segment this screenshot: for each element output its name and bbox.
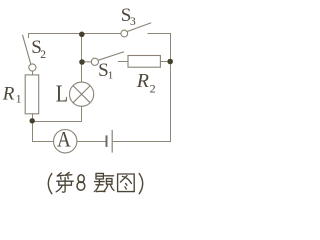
svg-text:1: 1 bbox=[16, 93, 22, 105]
label L bbox=[56, 80, 68, 107]
caption (第8题图) drawn as strokes: bbox=[48, 174, 142, 194]
battery cell: long thin plate (right) bbox=[111, 130, 113, 153]
svg-text:3: 3 bbox=[130, 16, 136, 28]
resistor R2 body bbox=[128, 56, 160, 68]
wire bottom-left horizontal lamp to junction bbox=[33, 121, 82, 123]
label A (ammeter) bbox=[57, 126, 71, 152]
svg-text:A: A bbox=[57, 126, 71, 152]
wire lamp bottom lead bbox=[81, 106, 83, 121]
caption char TI (题) bbox=[94, 173, 114, 191]
wire top horizontal from S2 corner to S3 bbox=[29, 33, 122, 35]
switch S3 blade bbox=[128, 23, 151, 32]
wire R1 bottom lead bbox=[32, 114, 34, 118]
wire top right segment after S3 bbox=[148, 33, 171, 35]
svg-text:L: L bbox=[56, 80, 68, 107]
caption open paren bbox=[48, 174, 52, 194]
wire middle vertical bus junction to lamp top bbox=[81, 34, 83, 83]
resistor R1 body bbox=[25, 75, 39, 114]
ammeter A circle bbox=[53, 130, 76, 153]
wire R2 right lead to bus bbox=[160, 61, 170, 63]
caption char TU (图) bbox=[118, 174, 135, 192]
wire S2 fixed contact tick bbox=[28, 34, 30, 38]
lamp X diagonals bbox=[73, 86, 90, 103]
lamp L circle bbox=[70, 82, 94, 106]
caption char DI (第) bbox=[56, 172, 73, 192]
wire right vertical bus bbox=[170, 34, 172, 142]
junction node top (bus/top wire) bbox=[79, 32, 85, 38]
wire left riser to ammeter bbox=[33, 122, 54, 142]
switch S2 circle terminal bbox=[29, 64, 36, 71]
switch S2 blade bbox=[23, 35, 31, 64]
switch S3 circle terminal bbox=[121, 30, 128, 37]
junction node R1 bottom bbox=[30, 118, 35, 123]
wire R1 top lead bbox=[32, 71, 34, 75]
svg-text:2: 2 bbox=[150, 81, 156, 95]
caption digit 8 bbox=[77, 175, 85, 191]
battery cell: short thick plate (left) bbox=[106, 135, 108, 147]
svg-text:2: 2 bbox=[40, 49, 46, 61]
wire bottom right from battery to bus bbox=[113, 141, 171, 143]
junction node R2 right / bus bbox=[167, 59, 173, 65]
switch S1 circle terminal bbox=[91, 58, 98, 65]
wire S1 dot to circle bbox=[85, 61, 92, 63]
svg-text:1: 1 bbox=[108, 70, 114, 82]
wire ammeter to battery bbox=[77, 141, 106, 143]
svg-text:R: R bbox=[2, 84, 15, 105]
junction node S1 tap bbox=[79, 59, 85, 65]
svg-text:R: R bbox=[136, 70, 149, 92]
caption close paren bbox=[139, 174, 143, 194]
switch S1 blade bbox=[98, 52, 123, 60]
wire S1 to R2 left lead bbox=[119, 61, 129, 63]
